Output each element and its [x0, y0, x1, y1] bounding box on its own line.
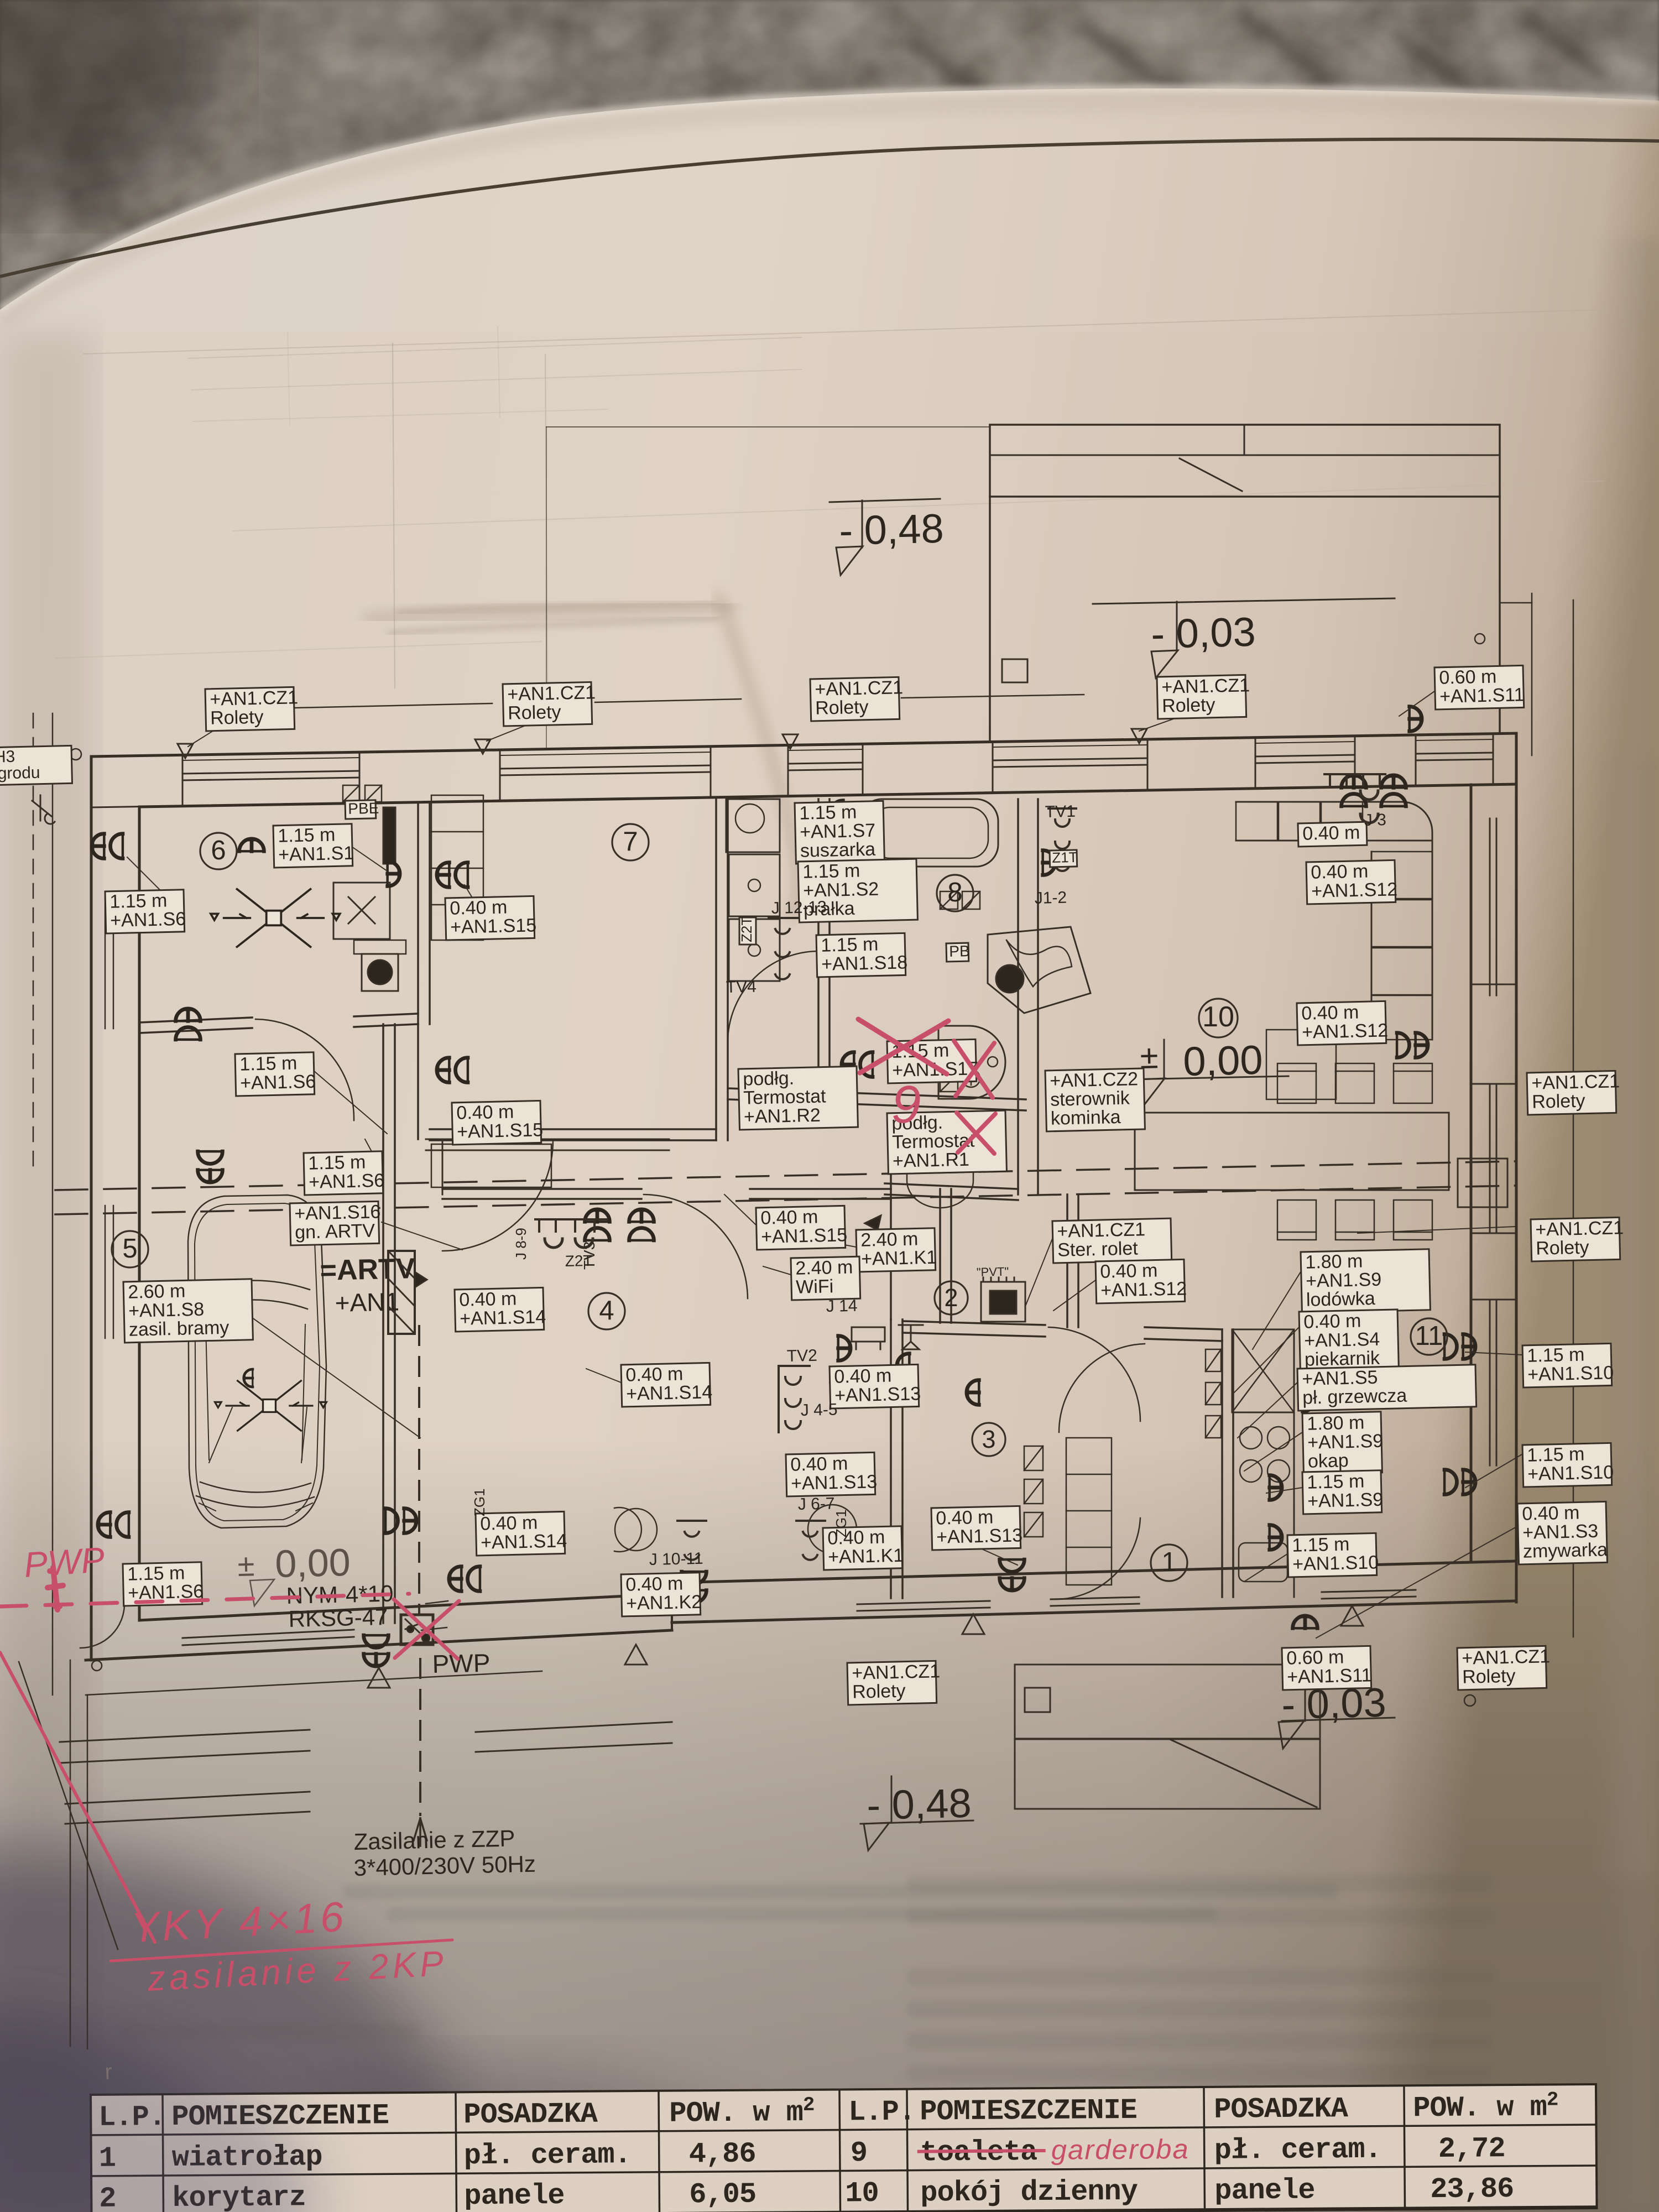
label +AN1.S6	[123, 1562, 204, 1606]
node room 11	[1411, 1318, 1447, 1355]
svg-text:+AN1.S15: +AN1.S15	[761, 1224, 848, 1248]
small circle	[1475, 634, 1485, 644]
small square terrace	[1002, 659, 1027, 682]
svg-text:lodówka: lodówka	[1306, 1288, 1376, 1311]
label gn. ARTV	[290, 1201, 382, 1245]
svg-text:Rolety: Rolety	[1536, 1237, 1589, 1259]
rolety triangle top	[475, 739, 491, 754]
window south	[857, 1601, 990, 1604]
svg-text:4: 4	[599, 1296, 614, 1326]
bracket outlets room4	[535, 1219, 607, 1232]
window north	[500, 765, 711, 769]
svg-text:Z2T: Z2T	[738, 917, 755, 942]
lamp symbol	[211, 889, 340, 947]
small circle left	[70, 749, 81, 760]
svg-text:ZG1: ZG1	[471, 1488, 488, 1516]
wall bath8 west	[817, 799, 820, 1099]
svg-text:+AN1.K2: +AN1.K2	[626, 1592, 702, 1614]
svg-text:+AN1.S12: +AN1.S12	[1311, 879, 1398, 902]
door arc entry	[1059, 1344, 1145, 1432]
wall room7/corridor	[430, 1128, 716, 1130]
socket symbol	[198, 1151, 223, 1182]
fridge X box	[1232, 1329, 1294, 1412]
label +AN1.R2	[738, 1066, 858, 1130]
svg-text:+AN1.K1: +AN1.K1	[828, 1545, 904, 1568]
terrace south right	[1015, 1665, 1320, 1739]
svg-text:+AN1.S13: +AN1.S13	[834, 1383, 921, 1406]
svg-text:6,05: 6,05	[689, 2178, 756, 2211]
svg-text:gn. ARTV: gn. ARTV	[295, 1220, 375, 1243]
svg-text:+AN1.S10: +AN1.S10	[1527, 1362, 1614, 1385]
wall south right inner	[672, 1561, 1516, 1583]
socket symbol	[1444, 1470, 1475, 1495]
socket symbol	[1381, 775, 1406, 806]
svg-text:+AN1.S14: +AN1.S14	[481, 1530, 567, 1553]
socket symbol	[1043, 851, 1055, 875]
label +AN1.S11	[1282, 1646, 1372, 1690]
label +AN1.S12	[1306, 860, 1398, 904]
svg-text:=ARTV: =ARTV	[320, 1253, 416, 1287]
wall south garage outer	[86, 1630, 672, 1660]
svg-text:4,86: 4,86	[689, 2138, 756, 2171]
room2 PVT device	[981, 1282, 1025, 1322]
node room 8	[937, 875, 973, 911]
socket symbol	[98, 1512, 129, 1537]
svg-text:•H3: •H3	[0, 748, 15, 766]
label +AN1.S15	[445, 896, 537, 940]
window north	[182, 771, 359, 774]
wall rooms2-3 west	[890, 1319, 892, 1598]
door arc room4 north	[644, 1194, 748, 1298]
svg-text:POW. w m2: POW. w m2	[1413, 2088, 1558, 2125]
socket symbol	[1444, 1334, 1475, 1359]
window north	[1255, 755, 1355, 757]
wall north inner face	[139, 784, 1516, 807]
svg-text:Rolety: Rolety	[852, 1681, 906, 1703]
cooktop	[1232, 1412, 1294, 1540]
svg-text:Z1T: Z1T	[1052, 849, 1078, 866]
svg-text:Ster. rolet: Ster. rolet	[1057, 1238, 1139, 1260]
socket symbol	[92, 834, 123, 859]
wall south garage inner	[139, 1594, 672, 1620]
PWP meter box	[401, 1615, 433, 1645]
svg-text:Rolety: Rolety	[815, 697, 869, 719]
frame border line	[0, 139, 1659, 276]
label ogrodu	[0, 745, 72, 785]
east wall mullions	[1471, 984, 1516, 985]
wall toilet9 south	[885, 1183, 1018, 1189]
svg-text:pł. ceram.: pł. ceram.	[1214, 2133, 1381, 2167]
dresser room7	[608, 968, 719, 1018]
label +AN1.S14	[621, 1363, 713, 1407]
wall room7 west lower	[417, 1024, 419, 1139]
label +AN1.S14	[455, 1287, 546, 1332]
door arc room6	[255, 1019, 354, 1120]
label Rolety	[1457, 1646, 1551, 1690]
red X over meter	[394, 1599, 459, 1659]
svg-text:Zasilanie z ZZP: Zasilanie z ZZP	[353, 1825, 515, 1855]
svg-text:TV4: TV4	[726, 978, 757, 997]
label +AN1.S10	[1522, 1443, 1614, 1487]
node room 1	[1151, 1545, 1187, 1581]
svg-text:2,72: 2,72	[1438, 2132, 1505, 2166]
label +AN1.S6	[304, 1151, 385, 1195]
wall entry hall	[1066, 1194, 1068, 1327]
red X toilet wc	[954, 1041, 994, 1098]
svg-text:PWP: PWP	[432, 1648, 491, 1678]
label piekarnik	[1299, 1310, 1399, 1373]
svg-text:POSADZKA: POSADZKA	[463, 2098, 598, 2132]
window south	[1322, 1590, 1416, 1592]
svg-text:PB: PB	[949, 942, 970, 960]
door arc bath8	[728, 951, 818, 1042]
room table	[91, 2084, 1597, 2212]
wall room6/7	[417, 803, 419, 1024]
hatch squares top wall	[343, 785, 359, 802]
window north	[993, 758, 1147, 760]
fireplace room6	[333, 883, 390, 939]
svg-text:TV1: TV1	[1045, 802, 1076, 821]
socket symbol	[1293, 1616, 1318, 1628]
svg-text:7: 7	[623, 827, 638, 857]
step right section	[671, 1599, 673, 1630]
label lod&#243;wka	[1301, 1249, 1430, 1313]
svg-text:+AN1.S9: +AN1.S9	[1307, 1489, 1384, 1512]
J14 junction	[852, 1327, 885, 1349]
svg-text:J1-2: J1-2	[1034, 889, 1067, 907]
wardrobe room7	[431, 795, 483, 940]
label +AN1.S12	[1095, 1259, 1187, 1303]
red X toilet basin	[858, 1019, 948, 1074]
socket symbol	[831, 851, 843, 875]
kitchen counter	[1293, 1329, 1295, 1597]
label +AN1.S6	[235, 1052, 316, 1096]
carpet background	[0, 0, 1659, 387]
wall east inner	[1470, 785, 1473, 1562]
label +AN1.S1	[273, 824, 354, 868]
svg-text:±: ±	[237, 1547, 255, 1583]
door arc room1	[1056, 1518, 1140, 1599]
dim line right	[1531, 593, 1533, 755]
label +AN1.S6	[105, 890, 186, 933]
connector stack bath	[769, 918, 797, 979]
label +AN1.S13	[786, 1452, 878, 1496]
svg-text:Rolety: Rolety	[1462, 1666, 1516, 1688]
red bar	[48, 1568, 63, 1610]
label suszarka	[795, 801, 884, 864]
PBE bar	[383, 807, 395, 864]
svg-text:J 12-13: J 12-13	[771, 898, 827, 917]
svg-text:+AN1.S10: +AN1.S10	[1527, 1462, 1614, 1485]
section line A dashed	[55, 1161, 1515, 1190]
svg-text:+AN1.S6: +AN1.S6	[309, 1170, 385, 1193]
svg-text:8: 8	[947, 878, 962, 907]
socket symbol	[239, 839, 264, 851]
socket symbol	[967, 1380, 979, 1405]
svg-text:+AN1.S13: +AN1.S13	[936, 1525, 1023, 1548]
socket symbol	[388, 862, 400, 886]
label Rolety	[1157, 675, 1250, 719]
wall west outer	[90, 757, 93, 1660]
chairs above	[1277, 1063, 1316, 1103]
socket symbol	[831, 801, 843, 826]
svg-text:11: 11	[1415, 1321, 1443, 1351]
label Rolety	[1527, 1071, 1620, 1115]
hatch squares fireplace	[940, 891, 958, 909]
svg-text:RKSG-47: RKSG-47	[288, 1604, 388, 1632]
label pra&#322;ka	[798, 859, 917, 922]
kitchen sink	[1239, 1543, 1287, 1582]
closet hatch room2	[1024, 1446, 1043, 1470]
wall toilet9 east	[1017, 799, 1019, 1194]
node room 10	[1199, 999, 1238, 1037]
room4 circle light	[614, 1507, 641, 1552]
washer dryer	[729, 854, 780, 916]
rolety triangle top	[178, 744, 193, 758]
label zmywarka	[1517, 1501, 1608, 1564]
svg-text:zasil. bramy: zasil. bramy	[129, 1317, 229, 1340]
label +AN1.K1	[823, 1526, 904, 1570]
terrace diagonal	[1180, 458, 1242, 491]
roof overhang lines	[546, 426, 990, 427]
svg-text:J 14: J 14	[826, 1297, 857, 1316]
svg-text:okap: okap	[1308, 1450, 1349, 1472]
label Rolety	[205, 687, 299, 731]
wall pier	[1493, 733, 1516, 785]
wall room4 north	[442, 1188, 641, 1190]
svg-text:+AN1.S15: +AN1.S15	[457, 1119, 544, 1142]
svg-text:Rolety: Rolety	[1532, 1091, 1585, 1113]
label +AN1.R1	[887, 1110, 1006, 1174]
west window glazing	[105, 896, 106, 1029]
svg-text:+AN1.R2: +AN1.R2	[744, 1105, 821, 1128]
corridor circle light	[808, 1505, 857, 1553]
label Z1T	[1050, 849, 1078, 867]
door arc garage	[240, 1019, 255, 1121]
svg-text:ogrodu: ogrodu	[0, 764, 40, 783]
svg-text:ZG1: ZG1	[833, 1509, 849, 1537]
svg-text:2: 2	[944, 1284, 958, 1312]
label Rolety	[847, 1661, 941, 1705]
sofa L living room	[1236, 802, 1432, 890]
circle sw	[92, 1661, 102, 1671]
terrace edge garage south	[86, 1671, 542, 1695]
rolety triangle top	[782, 734, 798, 749]
svg-text:TV3: TV3	[581, 1241, 598, 1270]
svg-text:POMIESZCZENIE: POMIESZCZENIE	[920, 2094, 1137, 2128]
coffee table	[1266, 1030, 1336, 1099]
svg-text:+AN1.S12: +AN1.S12	[1302, 1020, 1389, 1043]
wall corridor/room4	[442, 1139, 444, 1194]
wall west inner	[138, 807, 141, 1620]
closet room1	[1066, 1438, 1112, 1585]
socket symbol	[842, 1052, 873, 1077]
rolety triangle bottom1	[962, 1614, 984, 1634]
wall room2/3	[902, 1321, 1045, 1325]
terrace edge east	[1573, 600, 1574, 1637]
wall room4 east	[890, 1140, 892, 1319]
socket symbol	[1270, 1525, 1282, 1550]
svg-text:kominka: kominka	[1051, 1107, 1121, 1129]
node room 6	[200, 833, 237, 869]
svg-text:Rolety: Rolety	[508, 702, 561, 724]
leader lines	[295, 703, 492, 708]
svg-text:3: 3	[982, 1425, 995, 1453]
svg-text:0.40 m: 0.40 m	[1302, 822, 1360, 844]
bed room7	[432, 1144, 551, 1188]
east center post	[1458, 1159, 1507, 1207]
wall kitchen north / room10 south	[1222, 1323, 1471, 1329]
label +AN1.S15	[756, 1206, 848, 1250]
wall garage east	[382, 1024, 384, 1623]
label Ster. rolet	[1052, 1218, 1172, 1263]
ARTV hatch panel	[388, 1251, 415, 1334]
svg-text:+AN1.S14: +AN1.S14	[460, 1306, 546, 1329]
label PB	[946, 942, 970, 962]
window north	[788, 763, 863, 764]
door arc room4	[442, 1194, 550, 1302]
door arc room2	[954, 1193, 1051, 1288]
svg-text:J 3: J 3	[1364, 811, 1386, 830]
node room 7	[612, 824, 649, 860]
connector stack livingroom J3	[1324, 774, 1385, 785]
rolety triangle top	[1131, 729, 1147, 743]
door arc room3	[1048, 1327, 1140, 1421]
fireplace living	[988, 927, 1091, 1013]
label Rolety	[810, 677, 904, 721]
svg-text:+AN1.S6: +AN1.S6	[110, 909, 186, 931]
label +AN1.S15	[452, 1100, 544, 1145]
kitchen hatch	[1206, 1349, 1221, 1371]
svg-text:pł. ceram.: pł. ceram.	[464, 2138, 631, 2172]
small circle bottom right	[1464, 1695, 1475, 1706]
svg-text:POW. w m2: POW. w m2	[669, 2094, 815, 2130]
svg-text:+AN1.S14: +AN1.S14	[626, 1381, 713, 1405]
socket symbol	[176, 1009, 201, 1040]
svg-text:+AN1.S6: +AN1.S6	[240, 1071, 316, 1094]
toilet wc	[918, 1117, 967, 1181]
wall pier	[359, 750, 500, 803]
label +AN1.S18	[816, 933, 908, 977]
red handwriting group	[0, 1019, 995, 1999]
svg-text:"PVT": "PVT"	[977, 1265, 1009, 1279]
garage door glazing	[182, 1637, 354, 1645]
driveway lines	[60, 1730, 310, 1742]
node room 3	[972, 1423, 1005, 1456]
site diagonal dark	[19, 1662, 118, 1949]
svg-text:23,86: 23,86	[1430, 2173, 1514, 2206]
label PBE	[345, 800, 379, 819]
label +AN1.S10	[1522, 1343, 1614, 1387]
label +AN1.K2	[621, 1573, 702, 1616]
node room 5	[112, 1231, 148, 1267]
PWP arrow bottom	[414, 1818, 427, 1846]
red dashed line	[0, 1594, 409, 1606]
label +AN1.S10	[1287, 1533, 1379, 1577]
wall corridor south band	[426, 1092, 830, 1105]
svg-text:10: 10	[1202, 1001, 1234, 1033]
PWP cable dashed	[418, 1326, 420, 1614]
svg-text:suszarka: suszarka	[800, 839, 876, 862]
terrace block top	[990, 425, 1500, 497]
svg-text:- 0,03: - 0,03	[1150, 609, 1256, 657]
section line B dashed	[55, 1186, 1515, 1214]
svg-text:+AN1.S12: +AN1.S12	[1100, 1278, 1187, 1301]
east windows	[1489, 818, 1491, 995]
terrace edge west	[52, 713, 54, 1695]
wall room2 entry	[939, 1189, 941, 1323]
svg-text:+AN1.S11: +AN1.S11	[1439, 684, 1525, 707]
black dot fireplace	[996, 965, 1024, 993]
label WiFi	[791, 1256, 860, 1300]
svg-text:+AN1: +AN1	[335, 1287, 400, 1317]
node room 4	[588, 1293, 625, 1329]
label 0.40 m	[1298, 822, 1367, 847]
svg-text:J 8-9: J 8-9	[513, 1228, 529, 1260]
wall pier	[863, 742, 993, 795]
label Rolety	[1531, 1217, 1624, 1261]
svg-text:+AN1.S1: +AN1.S1	[278, 843, 354, 865]
terrace side walls	[989, 497, 991, 742]
svg-text:J 6-7: J 6-7	[797, 1494, 834, 1514]
svg-text:panele: panele	[464, 2179, 565, 2212]
socket symbol	[437, 1058, 468, 1083]
red X termostat	[957, 1113, 995, 1154]
svg-text:PWP: PWP	[23, 1540, 106, 1585]
svg-text:+AN1.S15: +AN1.S15	[450, 915, 537, 938]
connector stack TV2	[779, 1366, 810, 1432]
svg-text:1: 1	[1161, 1547, 1176, 1577]
svg-text:pokój dzienny: pokój dzienny	[920, 2176, 1138, 2210]
node room 2	[935, 1281, 968, 1314]
svg-text:garderoba: garderoba	[1051, 2133, 1190, 2166]
svg-text:+AN1.S18: +AN1.S18	[821, 952, 908, 975]
label +AN1.S14	[476, 1511, 567, 1556]
section triangle left	[865, 1215, 881, 1230]
washbasin toilet9	[907, 1125, 973, 1208]
label +AN1.S13	[931, 1506, 1023, 1550]
label +AN1.S11	[1434, 665, 1525, 709]
svg-text:Rolety: Rolety	[1162, 695, 1215, 717]
label okap	[1302, 1412, 1384, 1474]
svg-text:TV2: TV2	[786, 1347, 817, 1365]
circled plus symbol	[962, 1070, 980, 1087]
carpet streaks	[912, 11, 1604, 122]
bath sink counter	[726, 799, 780, 852]
ghost frame top-left	[188, 337, 802, 358]
door arc garage sw	[80, 1604, 124, 1648]
socket symbol	[1397, 1033, 1428, 1058]
svg-text:panele: panele	[1214, 2174, 1315, 2208]
gate symbol left	[32, 795, 55, 824]
red diagonal bottom left	[0, 1652, 155, 1942]
socket symbol	[385, 1509, 416, 1533]
svg-text:J 4-5: J 4-5	[800, 1400, 837, 1420]
svg-text:J 10-11: J 10-11	[649, 1550, 703, 1569]
connector stack bottom J10-11	[677, 1521, 706, 1560]
svg-text:6: 6	[211, 836, 226, 865]
svg-text:+AN1.S10: +AN1.S10	[1292, 1552, 1379, 1575]
socket symbol	[585, 1209, 610, 1240]
svg-text:pł. grzewcza: pł. grzewcza	[1302, 1385, 1407, 1408]
svg-text:10: 10	[845, 2177, 879, 2210]
label Z2T	[738, 917, 756, 945]
svg-text:0,00: 0,00	[275, 1541, 351, 1585]
paper crease	[368, 605, 733, 619]
svg-text:+AN1.S11: +AN1.S11	[1287, 1665, 1372, 1687]
label zasil. bramy	[123, 1279, 253, 1343]
window south	[1051, 1597, 1139, 1599]
